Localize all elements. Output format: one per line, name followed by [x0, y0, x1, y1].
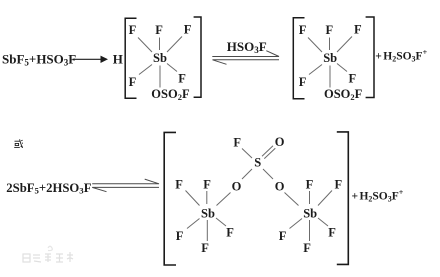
svg-text:F: F	[203, 178, 211, 192]
svg-text:+H2SO3F+: +H2SO3F+	[352, 188, 404, 204]
bond Sb-F down-left (right Sb)	[290, 219, 303, 229]
svg-text:F: F	[335, 178, 343, 192]
svg-text:Sb: Sb	[153, 51, 167, 65]
svg-text:F: F	[201, 241, 209, 255]
svg-text:HSO3F: HSO3F	[227, 39, 267, 55]
bond Sb-F top-right (complex 2)	[337, 37, 352, 53]
svg-text:F: F	[178, 72, 186, 86]
bond Sb-OSO2F (complex 2)	[329, 66, 331, 88]
svg-text:F: F	[184, 23, 192, 37]
svg-text:OSO2F: OSO2F	[151, 87, 190, 102]
svg-text:F: F	[233, 136, 241, 150]
bond Sb-F top-right (complex 1)	[167, 37, 182, 53]
big left bracket (bottom complex)	[164, 132, 176, 265]
equilibrium harpoon bottom (reverse)	[213, 60, 280, 65]
bond Sb-F up (right Sb)	[309, 191, 311, 204]
bond Sb-F down-left (left Sb)	[187, 219, 200, 229]
svg-text:F: F	[129, 23, 137, 37]
bond Sb-F down (right Sb)	[309, 220, 311, 241]
bond O-Sb bridge right	[285, 193, 299, 206]
bond Sb-F down-right (left Sb)	[216, 218, 226, 226]
svg-text:F: F	[306, 178, 314, 192]
svg-text:2SbF5+2HSO3F: 2SbF5+2HSO3F	[6, 181, 91, 196]
bond Sb-F top-left (complex 2)	[308, 38, 322, 53]
bond Sb-OSO2F (complex 1)	[159, 66, 161, 88]
svg-text:F: F	[299, 23, 307, 37]
left bracket of complex 1	[125, 18, 136, 98]
svg-text:F: F	[175, 178, 183, 192]
bond Sb-F bottom-right (complex 2)	[337, 64, 347, 72]
right bracket of complex 2	[366, 17, 374, 98]
svg-text:F: F	[129, 75, 137, 89]
bond Sb-F bottom-left (complex 1)	[139, 65, 152, 75]
bond O-Sb bridge left	[217, 193, 231, 206]
svg-text:Sb: Sb	[323, 51, 337, 65]
svg-text:O: O	[275, 179, 285, 193]
forward arrow	[73, 56, 109, 63]
Chinese character "or"	[14, 139, 23, 147]
svg-text:Sb: Sb	[201, 207, 215, 221]
svg-text:F: F	[303, 241, 311, 255]
bond Sb-F down (left Sb)	[206, 220, 208, 241]
reactant formula SbF5+HSO3F	[2, 51, 76, 67]
svg-text:F: F	[326, 23, 334, 37]
bond Sb-F top-mid (complex 2)	[329, 38, 331, 51]
equilibrium harpoon top (forward)	[212, 51, 279, 57]
equilibrium harpoon bottom (bottom scheme)	[92, 187, 159, 191]
bond F-S (sulfate)	[242, 149, 252, 159]
svg-text:F: F	[155, 23, 163, 37]
svg-text:O: O	[275, 135, 285, 149]
watermark	[23, 246, 73, 262]
left bracket of complex 2	[293, 18, 304, 99]
equilibrium harpoon top (bottom scheme)	[92, 179, 159, 184]
bond Sb-F up-left (left Sb)	[186, 191, 200, 206]
double bond S=O (sulfate)	[262, 146, 273, 156]
right bracket of complex 1	[194, 17, 201, 97]
svg-text:Sb: Sb	[303, 207, 317, 221]
bond S-O right (sulfate)	[263, 169, 273, 179]
bond Sb-F bottom-left (complex 2)	[309, 65, 322, 75]
svg-text:F: F	[349, 72, 357, 86]
svg-text:F: F	[226, 226, 234, 240]
svg-text:F: F	[354, 23, 362, 37]
svg-text:O: O	[232, 179, 242, 193]
bond Sb-F up (left Sb)	[206, 191, 208, 204]
bond Sb-F top-mid (complex 1)	[159, 38, 161, 51]
svg-text:F: F	[279, 229, 287, 243]
svg-text:OSO2F: OSO2F	[324, 87, 363, 102]
svg-text:H: H	[113, 51, 123, 66]
bond Sb-F down-right (right Sb)	[318, 218, 328, 226]
bond Sb-F bottom-right (complex 1)	[167, 64, 177, 72]
svg-text:+H2SO3F+: +H2SO3F+	[375, 48, 427, 64]
svg-text:S: S	[254, 156, 261, 170]
bond S-O left (sulfate)	[242, 169, 252, 179]
svg-text:F: F	[299, 75, 307, 89]
bond Sb-F up-right (right Sb)	[318, 191, 332, 206]
big right bracket (bottom complex)	[337, 132, 349, 265]
svg-text:F: F	[176, 229, 184, 243]
bond Sb-F top-left (complex 1)	[138, 38, 152, 53]
svg-text:F: F	[328, 226, 336, 240]
